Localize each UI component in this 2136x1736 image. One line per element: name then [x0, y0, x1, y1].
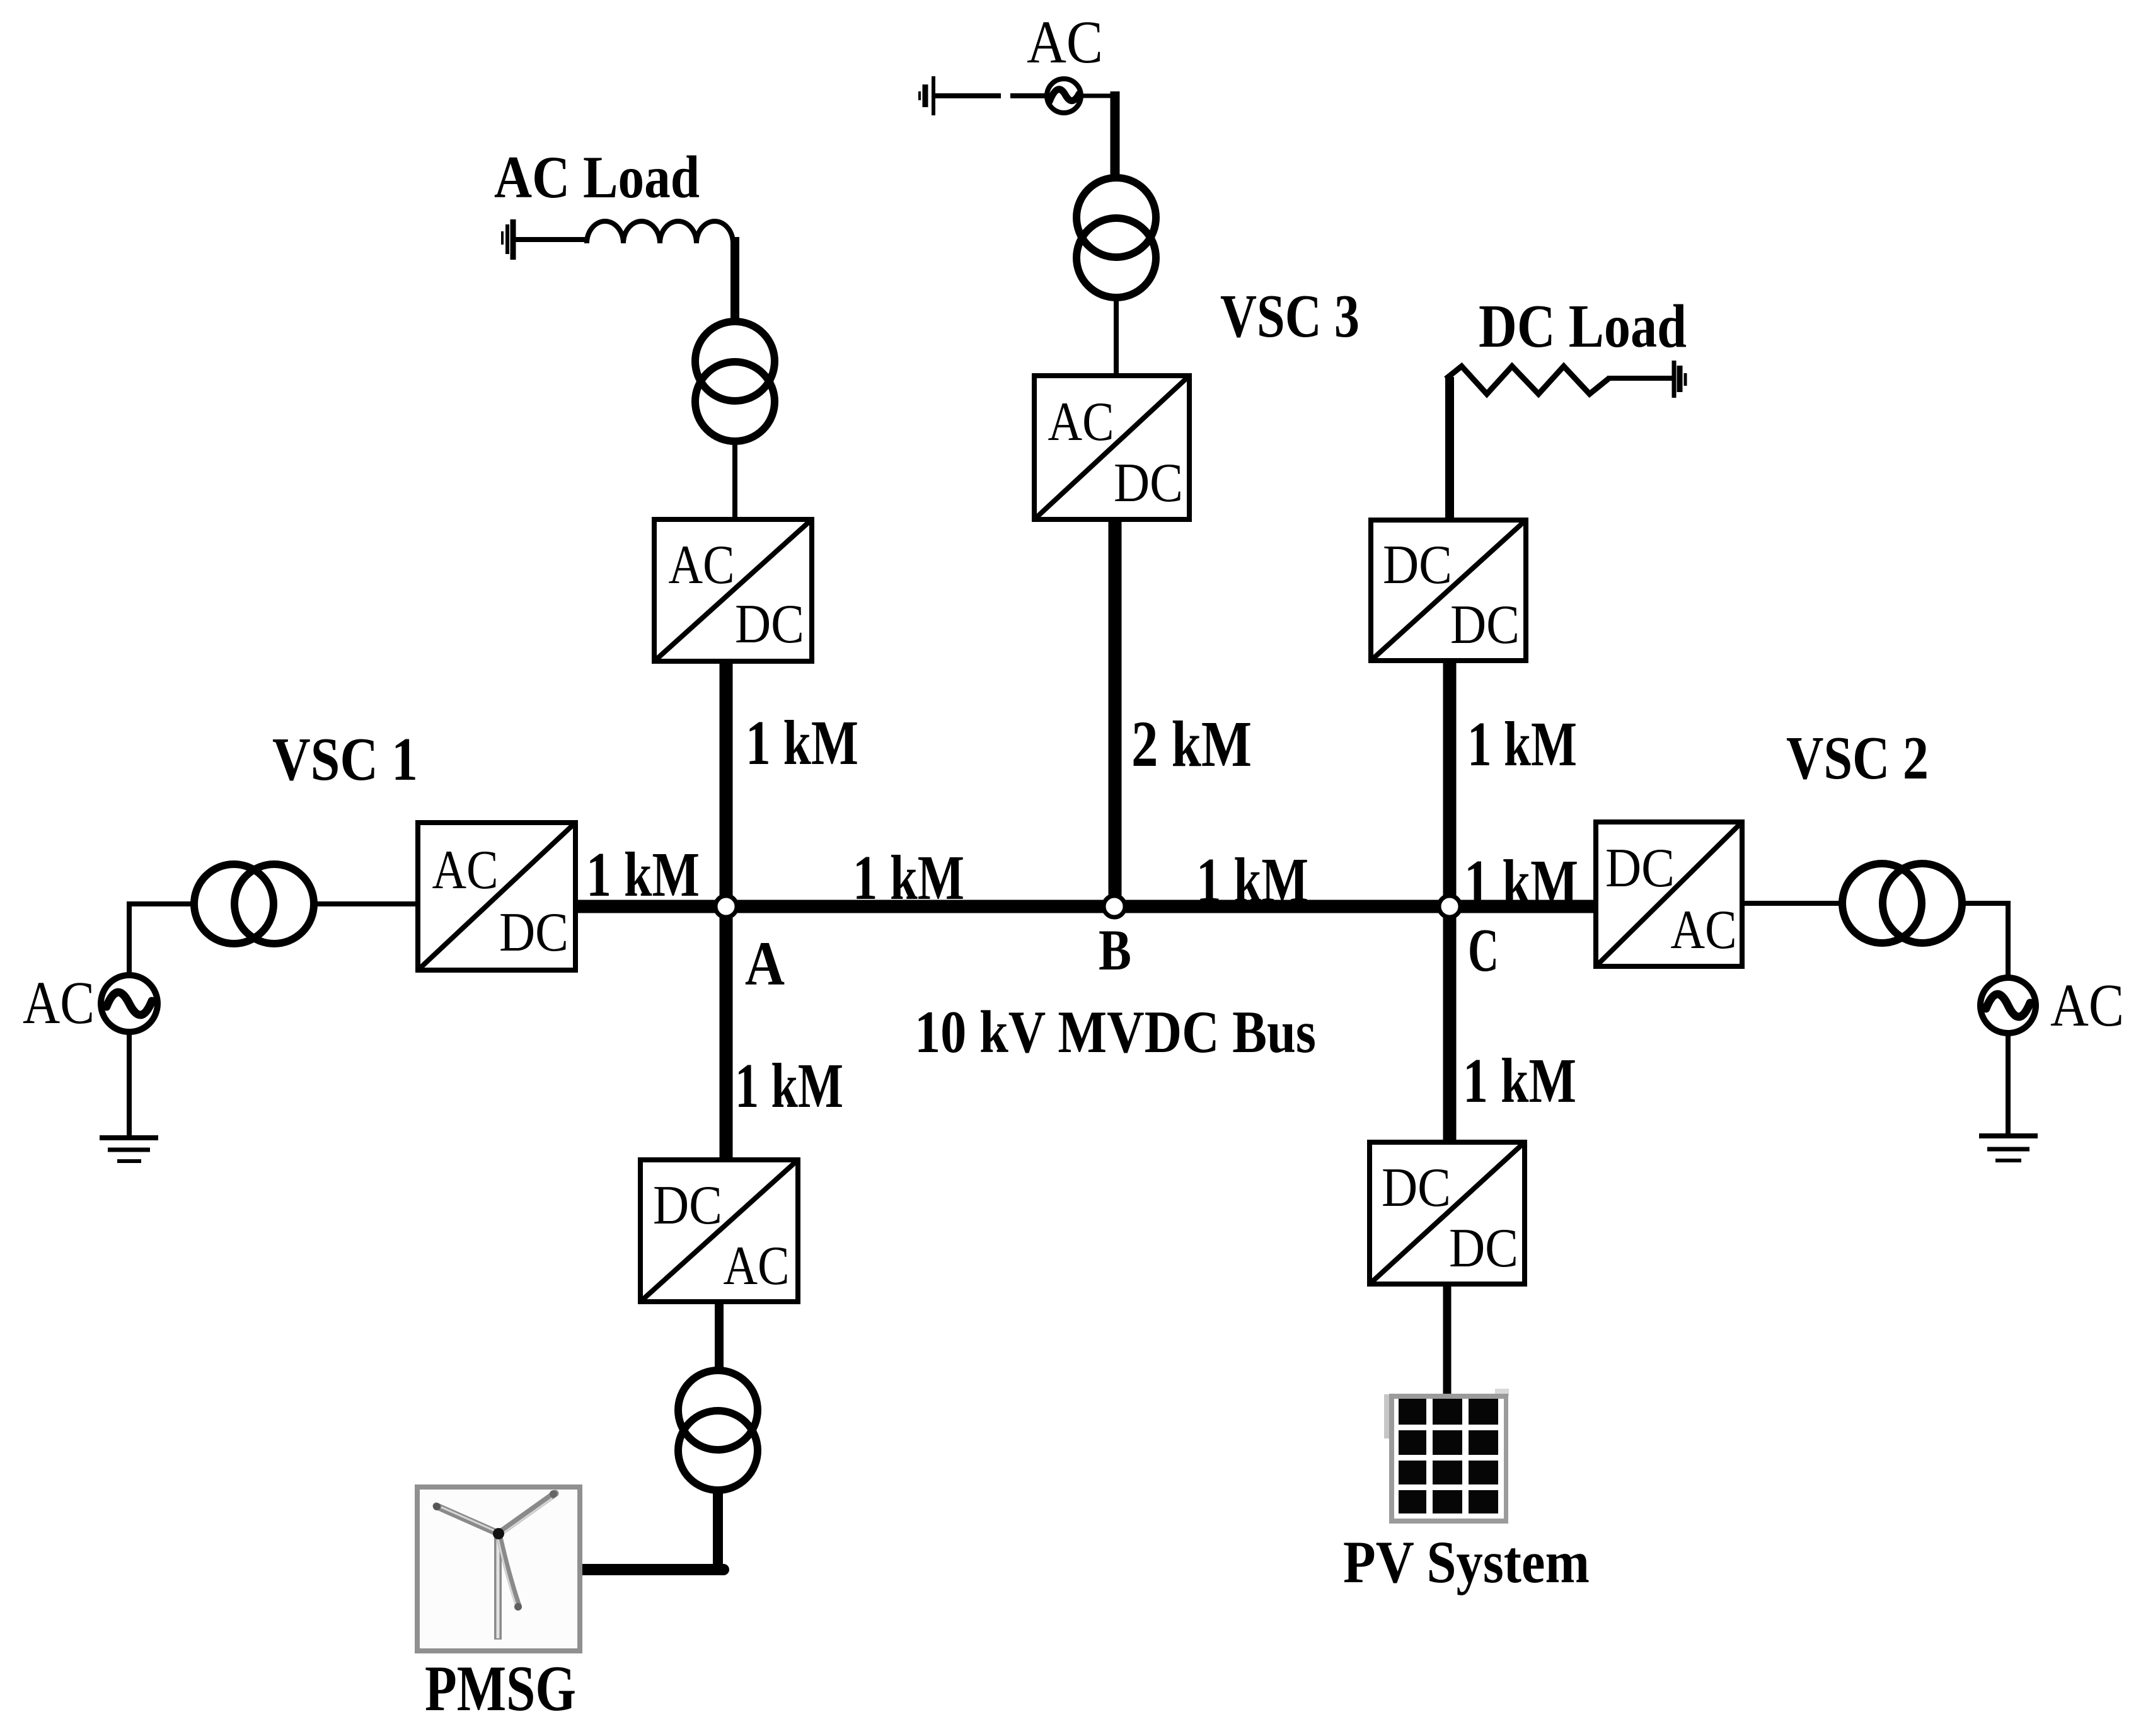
svg-text:1 kM: 1 kM — [1467, 709, 1577, 779]
wire VSC1 AC source to ground — [127, 1032, 132, 1138]
svg-text:DC: DC — [1114, 453, 1183, 514]
transformer T2 VSC3 — [1077, 178, 1156, 298]
converter AC/DC VSC3 — [1034, 376, 1189, 519]
wire VSC2 converter to transformer — [1742, 901, 1844, 906]
AC source top — [1047, 79, 1081, 113]
AC source VSC1 — [101, 975, 158, 1032]
wire node C to VSC2 converter — [1450, 900, 1597, 913]
converter DC/DC (PV branch) — [1370, 1142, 1525, 1284]
AC source VSC2 — [1980, 978, 2036, 1033]
wire AC Load transformer to converter — [732, 441, 737, 521]
ground VSC1 AC source — [100, 1138, 158, 1161]
ground AC Load — [502, 219, 513, 260]
node A — [715, 896, 737, 917]
svg-text:AC: AC — [1671, 900, 1737, 961]
svg-text:AC: AC — [669, 535, 735, 596]
wire converter to PV panel — [1443, 1284, 1452, 1396]
svg-text:DC: DC — [735, 594, 804, 655]
svg-text:DC: DC — [1605, 838, 1675, 899]
svg-text:AC: AC — [23, 969, 95, 1036]
wire 1 kM converter to node A — [720, 661, 733, 906]
converter DC/AC (PMSG branch) — [640, 1160, 798, 1302]
svg-text:1 kM: 1 kM — [1464, 847, 1578, 917]
wire resistor to ground — [1607, 376, 1672, 381]
wire 2 kM VSC3 to node B — [1109, 519, 1122, 906]
wire 1 kM node C down to converter — [1443, 906, 1457, 1143]
svg-text:PV System: PV System — [1343, 1529, 1590, 1595]
ground DC Load — [1674, 361, 1685, 398]
wire corner down to transformer — [1111, 91, 1120, 179]
transformer T4 VSC1 — [194, 864, 314, 944]
wire 1 kM node A down to converter — [720, 906, 733, 1161]
wire converter to PMSG transformer — [715, 1302, 724, 1372]
wind turbine PMSG — [494, 1537, 502, 1640]
converter AC/DC VSC1 — [418, 823, 575, 970]
wire 1 kM converter to node C — [1443, 661, 1457, 906]
converter DC/AC VSC2 — [1596, 822, 1742, 966]
wire AC Load ground to inductor — [514, 237, 589, 242]
svg-text:10 kV MVDC Bus: 10 kV MVDC Bus — [915, 998, 1316, 1065]
svg-text:2 kM: 2 kM — [1131, 708, 1252, 780]
PMSG box — [417, 1487, 580, 1651]
wire PMSG transformer down to elbow — [713, 1490, 723, 1575]
svg-text:VSC 3: VSC 3 — [1220, 282, 1360, 350]
svg-text:AC: AC — [1027, 8, 1103, 76]
wire AC source to ground — [2006, 1033, 2011, 1138]
wire VSC1 transformer to converter — [313, 901, 419, 906]
svg-text:AC: AC — [2050, 971, 2124, 1039]
svg-text:AC: AC — [724, 1235, 790, 1297]
inductor AC Load — [587, 221, 733, 243]
svg-text:1 kM: 1 kM — [1196, 845, 1308, 915]
svg-text:VSC 1: VSC 1 — [272, 726, 418, 794]
svg-text:DC: DC — [1383, 535, 1452, 596]
svg-text:1 kM: 1 kM — [1463, 1045, 1576, 1116]
svg-text:AC: AC — [432, 840, 499, 901]
wire DC Load down to converter — [1445, 377, 1454, 521]
svg-text:DC: DC — [653, 1175, 722, 1236]
svg-text:DC: DC — [499, 902, 569, 963]
svg-text:VSC 2: VSC 2 — [1786, 724, 1929, 792]
transformer T3 PMSG — [678, 1370, 758, 1490]
wire elbow to PMSG box — [583, 1564, 724, 1575]
PV panel — [1384, 1389, 1509, 1524]
svg-text:C: C — [1468, 917, 1499, 985]
resistor DC Load — [1446, 366, 1609, 394]
svg-text:DC Load: DC Load — [1479, 292, 1687, 360]
wire top ground to AC source — [935, 93, 1001, 98]
svg-text:AC Load: AC Load — [494, 144, 700, 211]
svg-text:1 kM: 1 kM — [586, 839, 700, 910]
svg-text:DC: DC — [1382, 1157, 1451, 1218]
svg-text:1 kM: 1 kM — [746, 707, 858, 778]
node B — [1104, 896, 1125, 917]
svg-text:DC: DC — [1450, 594, 1520, 656]
ground top AC source — [920, 76, 933, 115]
transformer T1 AC Load — [695, 321, 775, 441]
wire inductor elbow down to transformer — [730, 237, 739, 323]
svg-text:A: A — [745, 929, 785, 998]
wire VSC1 AC source elbow to transformer — [129, 904, 196, 976]
transformer T5 VSC2 — [1842, 864, 1962, 943]
ground VSC2 AC source — [1979, 1136, 2038, 1160]
converter AC/DC (AC Load branch) — [654, 519, 812, 661]
svg-text:1 kM: 1 kM — [735, 1050, 843, 1121]
wire transformer to VSC3 converter — [1114, 298, 1119, 377]
svg-text:PMSG: PMSG — [425, 1653, 576, 1725]
wire 10 kV MVDC bus A-B-C — [575, 900, 1596, 913]
svg-text:DC: DC — [1449, 1218, 1518, 1279]
wire transformer to elbow and AC source — [1961, 903, 2008, 979]
svg-text:B: B — [1099, 918, 1131, 982]
svg-text:AC: AC — [1048, 391, 1114, 453]
converter DC/DC (DC Load branch) — [1371, 520, 1526, 661]
wire AC source to corner — [1080, 94, 1119, 98]
svg-text:1 kM: 1 kM — [853, 842, 964, 913]
node C — [1439, 896, 1460, 917]
